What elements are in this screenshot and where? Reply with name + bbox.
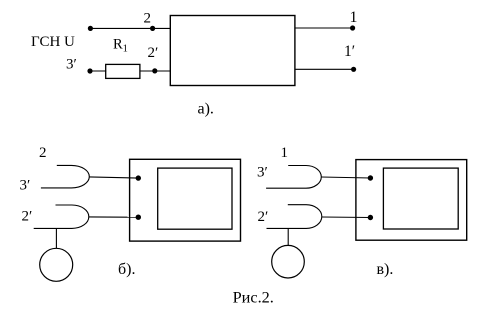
oscilloscope outer box (v) (356, 160, 467, 241)
terminal dot 1' (351, 67, 356, 72)
svg-text:ГСН U: ГСН U (31, 34, 75, 50)
svg-text:2: 2 (39, 145, 47, 161)
wire: upper plug to oscilloscope (b) (89, 177, 138, 178)
svg-text:3′: 3′ (20, 178, 31, 194)
generator circle (v) (272, 245, 305, 278)
oscilloscope screen (v) (383, 168, 458, 229)
svg-text:R1: R1 (113, 37, 128, 55)
wire: terminal 3' to resistor R1 (90, 70, 106, 72)
terminal dot 1 (350, 25, 355, 30)
wire: top-left terminal to node 2 into box (90, 27, 170, 29)
wire: box to terminal 1' (295, 68, 354, 70)
junction dot lower (v) (368, 215, 373, 220)
wire: lower plug to oscilloscope (b) (89, 216, 139, 218)
svg-text:1: 1 (350, 9, 358, 26)
svg-text:3′: 3′ (66, 57, 77, 73)
svg-text:2′: 2′ (148, 45, 159, 61)
wire: lower plug down to generator (v) (287, 228, 289, 245)
terminal dot top-left input (88, 26, 93, 31)
wire: resistor R1 to node 2' into box (140, 70, 171, 72)
svg-text:1: 1 (281, 145, 289, 161)
generator circle (b) (40, 248, 73, 281)
wire: lower plug to oscilloscope (v) (322, 216, 371, 219)
oscilloscope outer box (b) (130, 159, 241, 241)
svg-text:2′: 2′ (258, 209, 269, 225)
svg-text:1′: 1′ (344, 43, 355, 60)
node dot 2' (152, 68, 157, 73)
four-terminal network box U1 (a) (170, 16, 295, 86)
svg-text:б).: б). (118, 261, 135, 278)
node dot 2 (150, 26, 155, 31)
svg-text:а).: а). (198, 101, 214, 118)
terminal dot 3' (87, 68, 92, 73)
junction dot lower (b) (136, 215, 141, 220)
svg-text:в).: в). (377, 261, 394, 278)
plug connector upper (b) (41, 165, 89, 188)
svg-text:3′: 3′ (257, 165, 268, 181)
junction dot upper (v) (368, 175, 373, 180)
resistor R1 body (106, 64, 140, 78)
plug connector lower (b) (34, 205, 89, 228)
wire: upper plug to oscilloscope (v) (321, 177, 370, 178)
svg-text:2′: 2′ (22, 209, 33, 225)
junction dot upper (b) (136, 175, 141, 180)
svg-text:Рис.2.: Рис.2. (233, 288, 274, 307)
plug connector upper (v) (266, 166, 321, 189)
svg-text:2: 2 (144, 11, 152, 27)
wire: box to terminal 1 (295, 27, 353, 29)
wire: lower plug down to generator (b) (55, 228, 57, 248)
oscilloscope screen (b) (158, 168, 232, 229)
plug connector lower (v) (267, 205, 322, 229)
